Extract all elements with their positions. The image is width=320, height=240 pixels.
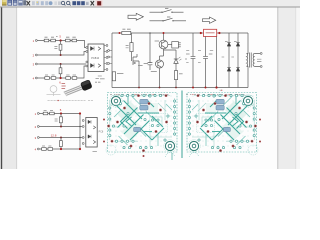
toolbar icon: zoom out xyxy=(67,1,70,4)
terminal pin 1 xyxy=(35,40,37,42)
top rail wire xyxy=(112,32,248,34)
capacitor C2 column xyxy=(192,33,194,88)
rail junction dots top xyxy=(119,32,121,34)
resistor R2 xyxy=(51,39,56,42)
switch S1 blade xyxy=(162,10,172,13)
wire Q3 drain down xyxy=(138,68,140,88)
wire row 3b xyxy=(39,137,82,139)
flow arrow 1 xyxy=(128,13,143,20)
optocoupler U1 body xyxy=(88,44,104,72)
U1 opto LED symbol a xyxy=(91,47,95,51)
LS1 pins xyxy=(178,43,180,47)
R3 R4 value labels xyxy=(66,36,76,38)
terminal pin 4b xyxy=(37,148,39,150)
flow arrow 2 xyxy=(203,17,216,23)
U2 opto transistor symbol a xyxy=(93,126,95,129)
toolbar icon: layer2 xyxy=(77,1,81,5)
resistor R14 vertical xyxy=(60,141,63,147)
D2 label xyxy=(234,41,237,43)
wire vertical G to H xyxy=(60,138,62,150)
pcb copy B mirrored xyxy=(187,93,258,156)
optocoupler U2 body xyxy=(86,118,97,148)
terminal pin 3b xyxy=(37,137,39,139)
resistor R1 xyxy=(44,39,49,42)
D6 arrows xyxy=(178,57,181,60)
U1 opto LED symbol b xyxy=(91,64,95,68)
svg-text:PC844: PC844 xyxy=(91,56,99,60)
terminal pin 2b xyxy=(37,126,39,128)
R13 label xyxy=(55,119,58,121)
mid wires xyxy=(150,33,176,57)
photo caption marks xyxy=(95,79,100,83)
pcb copy A xyxy=(106,93,177,156)
resistor R21 vertical xyxy=(130,43,133,52)
transistor Q1 xyxy=(159,40,168,49)
left rail wire xyxy=(111,33,113,88)
toolbar icon: sep xyxy=(54,1,57,5)
bus top junction dot xyxy=(79,112,81,114)
node C junction dot xyxy=(60,63,62,65)
toolbar icon: print xyxy=(18,0,23,6)
annotation row right red marks xyxy=(192,93,237,95)
caption red tick xyxy=(58,100,59,101)
R21 label xyxy=(126,46,129,48)
Q2 wires xyxy=(160,49,164,88)
VR1 label xyxy=(206,32,215,34)
R5 value label xyxy=(54,46,57,48)
wire vertical node C to node D xyxy=(60,64,62,78)
resistor R9 xyxy=(66,77,71,80)
Q1 junction on rail xyxy=(163,32,165,34)
R9 R10 value labels xyxy=(66,74,76,76)
C3 plates xyxy=(203,56,208,58)
TO92 pin list red xyxy=(62,84,66,89)
resistor R23 vertical xyxy=(174,71,177,80)
node G junction dot xyxy=(60,137,62,139)
opto input circles xyxy=(82,120,84,122)
resistor R13 vertical xyxy=(60,117,63,123)
left tool panel xyxy=(0,7,17,169)
zener column xyxy=(216,37,218,88)
panel divider trace xyxy=(181,91,183,159)
annotation row left red marks xyxy=(116,93,161,95)
toolbar icon: layer1 xyxy=(72,1,76,5)
VR1 output junction xyxy=(218,32,220,34)
svg-text:PC8: PC8 xyxy=(99,131,104,134)
wire input 1 xyxy=(37,41,86,48)
S1 contact dots xyxy=(161,12,162,13)
diode D1 column xyxy=(228,33,230,88)
terminal pin 3 xyxy=(35,63,37,65)
toolbar icon: active red tool xyxy=(96,0,103,6)
toolbar background xyxy=(0,0,300,7)
C1 label xyxy=(144,63,148,65)
toolbar icon: copy xyxy=(36,1,39,5)
TR1 secondary wires xyxy=(254,54,260,67)
buzzer LS1 body xyxy=(172,42,179,48)
bottom rail junction dots xyxy=(192,87,194,89)
TR1 terminals xyxy=(260,53,262,55)
mosfet Q3 xyxy=(132,54,140,68)
bus bottom junction dot xyxy=(79,148,81,150)
wire vertical node A to node B xyxy=(60,41,62,56)
next row hole arc left xyxy=(166,153,175,158)
stray pads left of panel xyxy=(103,119,105,121)
resistor R7 xyxy=(45,77,50,80)
LS1 wire from Q1 xyxy=(168,44,172,46)
diode D2 column xyxy=(237,33,239,88)
VR1 input junction xyxy=(200,32,202,34)
wire input 4 xyxy=(37,66,86,78)
R1 R2 value labels xyxy=(45,36,58,39)
U1 right pin circles xyxy=(106,45,108,47)
caption text line xyxy=(48,100,94,102)
extra value labels xyxy=(186,50,234,90)
toolbar icon: grid xyxy=(58,1,61,5)
Q2 label xyxy=(151,70,157,72)
right rail drop xyxy=(247,33,248,88)
node H junction dot xyxy=(60,148,62,150)
toolbar icon: list xyxy=(86,1,89,5)
capacitor C3 column xyxy=(205,37,207,88)
resistor R22 vertical xyxy=(112,72,115,81)
voltage regulator VR1 xyxy=(204,29,217,36)
window left border xyxy=(0,0,2,169)
U1 left pin circles xyxy=(86,47,88,49)
wire row 1b xyxy=(39,113,80,115)
C3 label xyxy=(209,53,213,55)
switch S2 wire left xyxy=(150,20,164,22)
switch S2 blade xyxy=(163,18,173,21)
transistor photo body xyxy=(80,79,93,91)
toolbar icon: cut xyxy=(32,1,35,5)
TR1 secondary xyxy=(253,54,254,67)
resistor R5 vertical xyxy=(59,44,62,50)
annotation row left xyxy=(110,93,168,95)
S2 contact dots xyxy=(162,20,163,21)
S1 label xyxy=(165,7,168,9)
diode D3 xyxy=(227,68,231,72)
node A junction dot xyxy=(60,39,62,41)
resistor R15 xyxy=(42,148,47,151)
toolbar icon: save all xyxy=(13,0,18,6)
U1 right pin wires xyxy=(104,46,106,70)
resistor R12 xyxy=(50,112,55,115)
U1 footnote marks xyxy=(98,76,105,79)
Q1 collector wire to rail xyxy=(163,33,165,40)
node D junction dot xyxy=(60,77,62,79)
svg-text:12.8: 12.8 xyxy=(51,133,57,137)
Q3 label xyxy=(138,65,143,67)
wire input 3 xyxy=(37,63,86,65)
bus mid junction dots xyxy=(79,126,81,128)
toolbar icon: delete X xyxy=(27,1,30,5)
node E junction dot xyxy=(60,112,62,114)
terminal pin 4 xyxy=(35,77,37,79)
U2 opto LED symbol a xyxy=(88,120,91,123)
wire row 4b xyxy=(39,148,80,150)
stray pad below xyxy=(143,155,145,157)
bottom rail left dots xyxy=(138,87,140,89)
transistor photo legs xyxy=(64,86,83,96)
canvas background xyxy=(0,0,300,169)
toolbar icon: layer3 xyxy=(81,1,85,5)
terminal pin 2 xyxy=(35,54,37,56)
R7 R8 value labels xyxy=(45,74,55,76)
Q3 arrow xyxy=(133,62,135,64)
node B junction dot xyxy=(60,54,62,56)
divider stub below xyxy=(171,153,173,160)
toolbar icon: save xyxy=(7,0,12,6)
C2 plates xyxy=(191,56,196,58)
opto output stubs xyxy=(110,51,113,64)
resistor R8 xyxy=(51,77,56,80)
capacitor C1 xyxy=(148,57,153,70)
R15 R16 labels xyxy=(42,145,51,147)
diode D2 xyxy=(236,43,240,47)
U2 footnote marks xyxy=(93,150,97,152)
diode D1 xyxy=(227,43,231,47)
wire vertical E to F xyxy=(60,114,62,127)
U1 opto transistor symbol a xyxy=(98,47,101,51)
U2 opto LED symbol b xyxy=(88,135,91,138)
toolbar icon: paste xyxy=(41,1,44,5)
wire input 2 xyxy=(37,52,86,56)
R23 wires xyxy=(175,67,177,87)
TO92 pinout stem xyxy=(53,92,55,96)
R11 R12 labels xyxy=(44,109,53,111)
LED D6 xyxy=(174,55,178,67)
toolbar icon: open (yellow) xyxy=(2,0,7,6)
R20 label xyxy=(122,28,130,30)
wire row 2b xyxy=(39,126,82,128)
R22 label xyxy=(117,72,123,74)
right scrollbar panel xyxy=(278,7,296,169)
toolbar icon: preview xyxy=(23,0,26,5)
TO92 pinout base line xyxy=(47,94,61,96)
vertical bus wire xyxy=(79,114,81,150)
S2 label xyxy=(167,16,170,18)
bottom rail wire xyxy=(112,87,248,89)
toolbar icon: undo xyxy=(45,1,48,5)
R23 label xyxy=(179,73,183,75)
TO92 pinout circle xyxy=(50,86,57,93)
TR1 core xyxy=(249,53,251,68)
U1 opto transistor symbol b xyxy=(98,64,101,68)
annotation row right xyxy=(186,93,244,95)
Q1 label xyxy=(155,40,159,42)
terminal pin 1b xyxy=(37,113,39,115)
resistor R6 vertical xyxy=(59,68,62,74)
resistor R16 xyxy=(48,148,53,151)
U2 opto transistor symbol b xyxy=(93,140,95,143)
next row hole arc right xyxy=(190,153,199,158)
switch S1 wire right xyxy=(172,11,184,13)
resistor R20 on rail xyxy=(122,31,131,34)
C2 label xyxy=(185,54,190,59)
resistor R3 xyxy=(66,39,71,42)
transistor Q2 xyxy=(156,60,164,68)
switch S2 wire right xyxy=(173,20,186,22)
toolbar icon: redo xyxy=(49,1,53,5)
diode D4 xyxy=(236,68,240,72)
resistor R4 xyxy=(72,39,77,42)
resistor R10 xyxy=(72,77,77,80)
toolbar icon: zoom in xyxy=(61,1,64,4)
TR1 label xyxy=(257,59,261,61)
switch S1 wire left xyxy=(150,11,163,13)
resistor R11 xyxy=(43,112,48,115)
D1 label xyxy=(225,41,228,43)
toolbar icon: close X xyxy=(91,1,94,5)
transformer TR1 primary xyxy=(247,54,248,67)
wire drop to R21 xyxy=(131,33,133,55)
node F junction dot xyxy=(60,126,62,128)
